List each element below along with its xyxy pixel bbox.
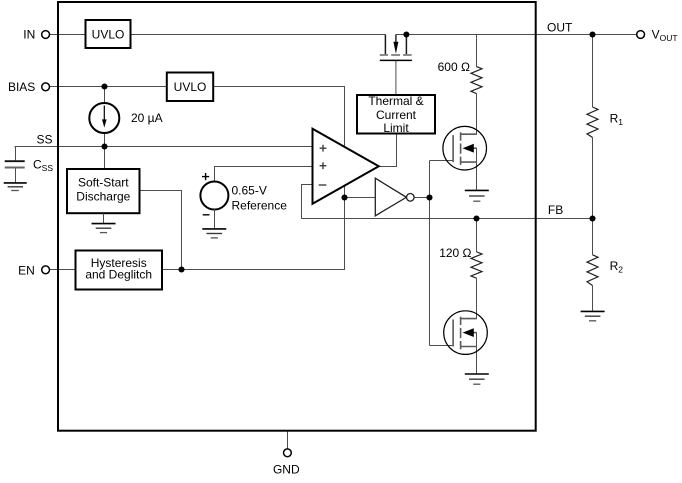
svg-text:R2: R2 xyxy=(610,259,624,275)
svg-text:20 µA: 20 µA xyxy=(131,111,163,125)
svg-text:VOUT: VOUT xyxy=(652,28,678,43)
ground under CSS xyxy=(4,183,27,191)
svg-text:EN: EN xyxy=(18,263,35,277)
junction dot FB 120 ohm xyxy=(473,215,479,221)
buffer inverter U3 xyxy=(375,178,414,216)
svg-text:Soft-Start: Soft-Start xyxy=(78,175,129,189)
wire SS to soft-start discharge box xyxy=(104,147,106,170)
wire EN pin to hysteresis box xyxy=(50,269,76,271)
wire NMOS Q1 source to ground xyxy=(476,148,478,190)
current source I1 20uA xyxy=(89,103,119,133)
wire reference to ground xyxy=(214,209,216,228)
junction dot pass FET drain OUT rail xyxy=(403,31,409,37)
wire OUT rail to 600 ohm resistor xyxy=(476,35,478,67)
wire BIAS pin to UVLO2 xyxy=(50,86,167,88)
svg-text:UVLO: UVLO xyxy=(174,80,207,94)
svg-text:R1: R1 xyxy=(610,111,624,127)
UVLO block U2 xyxy=(167,73,213,102)
wire CSS capacitor top xyxy=(15,147,17,161)
wire soft-start to ground xyxy=(103,214,105,224)
junction dot OUT R1 xyxy=(589,31,595,37)
resistor R1 xyxy=(587,107,598,138)
wire NMOS Q1 gate lead xyxy=(430,160,454,162)
wire FB node to R2 xyxy=(592,219,594,255)
UVLO block U1 xyxy=(86,20,131,48)
svg-text:Limit: Limit xyxy=(383,121,409,135)
soft-start discharge block xyxy=(67,169,140,213)
svg-text:CSS: CSS xyxy=(33,157,53,173)
wire R1 to FB node xyxy=(592,138,594,219)
wire 120 ohm to NMOS Q2 drain xyxy=(476,278,478,318)
wire R2 to ground xyxy=(592,286,594,311)
svg-text:Reference: Reference xyxy=(232,198,288,212)
svg-text:BIAS: BIAS xyxy=(8,80,35,94)
wire FB to 120 ohm resistor xyxy=(476,219,478,252)
wire enable node to buffer input xyxy=(345,197,376,199)
svg-text:600 Ω: 600 Ω xyxy=(438,60,470,74)
wire op-amp minus input to FB xyxy=(302,185,313,219)
wire gate rail vertical xyxy=(429,161,431,346)
capacitor CSS xyxy=(5,161,25,182)
wire soft-start discharge output xyxy=(140,191,182,270)
ground under soft-start discharge xyxy=(92,224,116,233)
wire BIAS junction down to current source xyxy=(104,87,106,104)
pin BIAS terminal xyxy=(42,83,50,91)
label 0.65-V Reference xyxy=(232,183,288,212)
svg-text:FB: FB xyxy=(548,203,563,217)
hysteresis and deglitch block xyxy=(76,251,163,290)
junction dot BIAS current source xyxy=(101,83,107,89)
wire FB line xyxy=(302,218,593,220)
junction dot hysteresis EN node xyxy=(178,266,184,272)
thermal and current limit block xyxy=(357,94,435,135)
svg-text:OUT: OUT xyxy=(547,20,573,34)
svg-text:SS: SS xyxy=(36,133,52,147)
resistor R4 120 ohm xyxy=(471,252,482,278)
pin IN terminal xyxy=(42,31,50,39)
ground under R2 xyxy=(581,311,605,320)
wire current source to SS line xyxy=(104,133,106,147)
wire buffer output to gate rail xyxy=(414,197,429,199)
ground under reference xyxy=(202,229,226,238)
wire NMOS Q2 gate lead xyxy=(430,345,454,347)
ground under Q2 xyxy=(465,190,489,201)
pin EN terminal xyxy=(42,266,50,274)
pin VOUT terminal xyxy=(637,31,645,39)
wire UVLO1 to pass FET source xyxy=(131,34,386,36)
op-amp error amplifier xyxy=(313,129,379,204)
wire UVLO2 to op-amp enable corner xyxy=(213,87,344,151)
wire OUT node to R1 xyxy=(592,35,594,108)
resistor R3 600 ohm xyxy=(471,67,482,94)
junction dot SS node xyxy=(101,143,107,149)
svg-text:IN: IN xyxy=(23,28,35,42)
ground under Q3 xyxy=(465,374,489,384)
junction dot buffer output xyxy=(426,194,432,200)
transistor Q3 NMOS lower xyxy=(444,311,488,355)
junction dot FB divider xyxy=(589,215,595,221)
svg-text:and Deglitch: and Deglitch xyxy=(85,268,152,282)
main IC boundary box xyxy=(58,2,536,431)
wire hysteresis output to op-amp enable xyxy=(162,183,345,270)
wire SS line xyxy=(15,146,313,148)
svg-text:0.65-V: 0.65-V xyxy=(232,183,267,197)
pin GND terminal xyxy=(284,449,292,457)
svg-text:Current: Current xyxy=(376,108,417,122)
svg-text:UVLO: UVLO xyxy=(92,27,125,41)
wire 600 ohm to NMOS Q1 drain xyxy=(476,94,478,135)
resistor R2 xyxy=(587,255,598,286)
svg-text:Thermal &: Thermal & xyxy=(368,94,423,108)
svg-text:Discharge: Discharge xyxy=(76,190,130,204)
svg-text:GND: GND xyxy=(273,463,300,477)
wire IN pin to UVLO1 xyxy=(50,34,86,36)
wire GND pin stem xyxy=(287,431,289,449)
wire reference to op-amp plus input xyxy=(215,167,313,183)
svg-text:120 Ω: 120 Ω xyxy=(439,246,471,260)
wire op-amp output to thermal block xyxy=(379,134,397,167)
junction dot enable buffer input xyxy=(341,194,347,200)
voltage reference V1 0.65V xyxy=(200,173,228,215)
wire OUT rail pass FET to VOUT terminal xyxy=(396,34,637,36)
transistor Q2 NMOS upper xyxy=(443,126,487,170)
wire thermal block to pass FET gate xyxy=(395,61,397,95)
wire NMOS Q2 source to ground xyxy=(476,333,478,374)
pass transistor Q1 PMOS xyxy=(380,35,412,61)
